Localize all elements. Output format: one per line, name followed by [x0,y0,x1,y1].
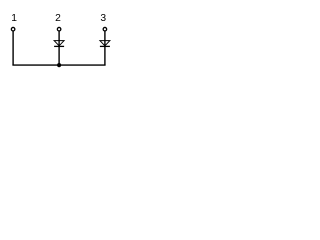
bottom bus wire [12,64,105,66]
diode D2 anode triangle (pin 3) [100,41,110,46]
wire pin 3 down to bus [104,31,106,65]
diode D1 anode triangle (pin 2) [54,41,64,46]
svg-text:2: 2 [55,13,61,24]
terminal pin 2 [57,27,61,31]
wire pin 1 down to bus [12,31,14,65]
svg-text:3: 3 [100,13,106,24]
terminal pin 3 [103,27,107,31]
junction dot pin 2 / bus [57,63,61,67]
svg-text:1: 1 [11,13,17,24]
terminal pin 1 [11,27,15,31]
diode D2 cathode bar (pin 3) [100,45,110,47]
wire pin 2 down to bus [58,31,60,65]
diode D1 cathode bar (pin 2) [54,45,64,47]
